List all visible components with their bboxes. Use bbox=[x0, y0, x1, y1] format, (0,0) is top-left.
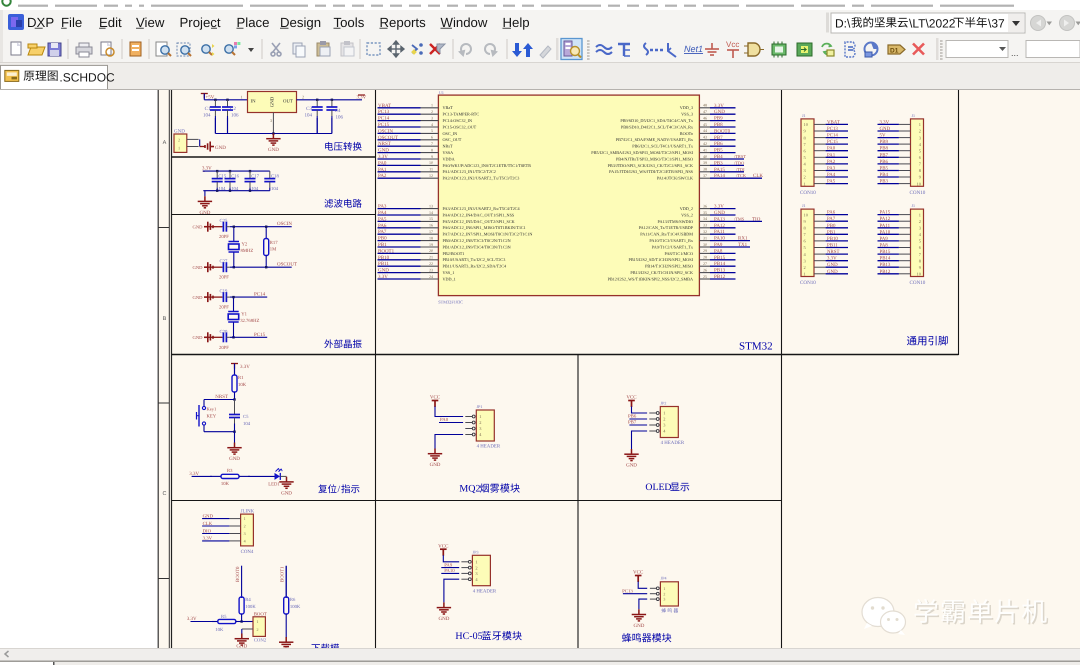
svg-text:C2: C2 bbox=[230, 106, 236, 112]
svg-text:PB12: PB12 bbox=[880, 269, 891, 275]
svg-text:42: 42 bbox=[703, 141, 707, 146]
svg-text:R3: R3 bbox=[227, 468, 233, 474]
svg-text:24: 24 bbox=[429, 274, 433, 279]
svg-text:3.3V: 3.3V bbox=[827, 256, 837, 262]
power +5V bbox=[201, 94, 215, 101]
svg-text:CON10: CON10 bbox=[910, 190, 926, 196]
svg-text:BOOTo: BOOTo bbox=[680, 131, 693, 136]
svg-text:PC14: PC14 bbox=[827, 133, 838, 139]
svg-text:GND: GND bbox=[430, 462, 441, 468]
svg-text:PC13: PC13 bbox=[378, 109, 390, 115]
power 3.3V (boot) bbox=[187, 616, 216, 622]
svg-text:PC15: PC15 bbox=[378, 122, 390, 128]
pin 23 wire bbox=[378, 272, 421, 274]
svg-text:B: B bbox=[163, 316, 167, 322]
pin 9 wire bbox=[378, 158, 421, 160]
svg-text:PA12/CAN_Tx/T1ETR/USBDP: PA12/CAN_Tx/T1ETR/USBDP bbox=[639, 225, 694, 230]
title bar (clipped at top) bbox=[0, 0, 1080, 10]
svg-text:GND: GND bbox=[827, 269, 838, 275]
svg-text:GND: GND bbox=[880, 126, 891, 132]
svg-text:40: 40 bbox=[703, 154, 707, 159]
svg-text:2: 2 bbox=[663, 417, 665, 422]
svg-text:PC14-OSC32_IN: PC14-OSC32_IN bbox=[443, 118, 473, 123]
svg-text:20PF: 20PF bbox=[219, 345, 229, 351]
svg-text:TX1: TX1 bbox=[738, 242, 748, 248]
svg-text:GND: GND bbox=[378, 268, 389, 274]
svg-text:3.3V: 3.3V bbox=[203, 536, 213, 542]
svg-text:PA9: PA9 bbox=[880, 236, 889, 242]
svg-text:VDD_3: VDD_3 bbox=[680, 105, 693, 110]
svg-text:CON4: CON4 bbox=[241, 549, 254, 555]
svg-text:PB15: PB15 bbox=[714, 255, 726, 261]
svg-text:PB12: PB12 bbox=[714, 274, 726, 280]
svg-text:STM32F103C: STM32F103C bbox=[438, 300, 463, 305]
status strip bbox=[0, 661, 1080, 665]
svg-text:25: 25 bbox=[703, 274, 707, 279]
svg-text:J1: J1 bbox=[802, 203, 806, 208]
svg-text:2: 2 bbox=[302, 94, 304, 99]
svg-text:PB6: PB6 bbox=[880, 159, 889, 165]
svg-text:GND: GND bbox=[193, 265, 204, 270]
svg-text:38: 38 bbox=[703, 167, 707, 172]
svg-text:PB6/I2C1_SCL/T4C1/USART1_Tx: PB6/I2C1_SCL/T4C1/USART1_Tx bbox=[632, 144, 694, 149]
svg-text:PB9/SD10_D5/I2C1_SDA/T4C4/CAN_: PB9/SD10_D5/I2C1_SDA/T4C4/CAN_Tx bbox=[620, 118, 693, 123]
svg-text:3: 3 bbox=[270, 118, 272, 123]
svg-text:5V: 5V bbox=[880, 133, 886, 139]
connector J1 CON10 bbox=[800, 113, 848, 196]
svg-text:C16: C16 bbox=[231, 174, 239, 180]
svg-text:PB4: PB4 bbox=[714, 154, 723, 160]
svg-text:PA3/ADC123_IN3/USART2_Rx/T5C4/: PA3/ADC123_IN3/USART2_Rx/T5C4/T2C4 bbox=[443, 206, 521, 211]
svg-text:VDD_2: VDD_2 bbox=[680, 206, 693, 211]
svg-text:OUT: OUT bbox=[283, 98, 293, 104]
svg-text:PA3: PA3 bbox=[378, 204, 387, 210]
block label 滤波电路 bbox=[324, 199, 361, 208]
ground GND (boot) bbox=[235, 629, 249, 650]
pin 45 wire bbox=[699, 126, 710, 128]
svg-text:3: 3 bbox=[663, 597, 665, 602]
svg-text:DIO: DIO bbox=[203, 528, 212, 534]
svg-text:22: 22 bbox=[429, 261, 433, 266]
svg-text:PB3/JTDO/SPI3_SCK/I2S3_CK/T2C2: PB3/JTDO/SPI3_SCK/I2S3_CK/T2C2/SPI1_SCK bbox=[608, 163, 693, 168]
svg-text:4 HEADER: 4 HEADER bbox=[661, 440, 685, 446]
svg-text:A: A bbox=[163, 140, 167, 146]
svg-text:10: 10 bbox=[429, 160, 433, 165]
svg-text:GND: GND bbox=[438, 616, 449, 622]
svg-text:36: 36 bbox=[703, 203, 707, 208]
svg-text:PB14/T1CH2N/SPI2_MISO: PB14/T1CH2N/SPI2_MISO bbox=[645, 264, 693, 269]
block label 复位/指示 bbox=[318, 484, 359, 495]
svg-text:PB7/I2C1_SDA/FSME_NADV/USART1_: PB7/I2C1_SDA/FSME_NADV/USART1_Rx bbox=[616, 137, 694, 142]
svg-text:106: 106 bbox=[231, 113, 239, 119]
svg-text:/: / bbox=[338, 485, 341, 495]
svg-text:1: 1 bbox=[178, 146, 180, 151]
connector P1 (2-pin GND) bbox=[174, 128, 205, 152]
svg-text:44: 44 bbox=[703, 128, 707, 133]
svg-text:2: 2 bbox=[919, 129, 921, 134]
op-amp U1 STM32F103C body bbox=[438, 90, 699, 305]
svg-text:C3: C3 bbox=[306, 106, 312, 112]
connector J5 JLINK CON4 bbox=[202, 509, 255, 555]
block label 电压转换 bbox=[325, 142, 362, 151]
ground GND (filter) bbox=[198, 191, 212, 216]
pin 40 wire bbox=[699, 158, 710, 160]
pin 16 wire bbox=[378, 227, 421, 229]
pin 24 wire bbox=[378, 278, 421, 280]
svg-text:Help: Help bbox=[503, 15, 530, 30]
pin 47 wire bbox=[699, 113, 710, 115]
svg-text:33: 33 bbox=[703, 223, 707, 228]
svg-text:32: 32 bbox=[703, 229, 707, 234]
svg-text:GND: GND bbox=[203, 513, 214, 519]
svg-text:PC15: PC15 bbox=[254, 332, 266, 338]
svg-text:BOOT0: BOOT0 bbox=[714, 128, 731, 134]
svg-text:41: 41 bbox=[703, 147, 707, 152]
svg-text:PA2: PA2 bbox=[378, 173, 387, 179]
svg-text:10K: 10K bbox=[215, 627, 224, 633]
pin 30 wire bbox=[699, 246, 710, 248]
power 3.3V (reset) bbox=[231, 364, 250, 376]
pin 27 wire bbox=[699, 265, 710, 267]
svg-text:Place: Place bbox=[237, 15, 270, 30]
svg-text:Y1: Y1 bbox=[241, 312, 247, 318]
svg-text:PC15-OSC32_OUT: PC15-OSC32_OUT bbox=[443, 124, 477, 129]
svg-text:J1: J1 bbox=[802, 113, 806, 118]
horizontal scrollbar bbox=[0, 648, 1080, 661]
svg-text:PA3: PA3 bbox=[827, 166, 836, 172]
menu bar bbox=[0, 10, 1080, 36]
pin 35 wire bbox=[699, 214, 710, 216]
svg-text:PA14: PA14 bbox=[714, 173, 725, 179]
svg-text:VBAT: VBAT bbox=[827, 119, 840, 125]
pin 19 wire bbox=[378, 246, 421, 248]
svg-text:PB15: PB15 bbox=[880, 249, 891, 255]
svg-text:PA5: PA5 bbox=[827, 179, 836, 185]
pin 7 wire bbox=[378, 145, 421, 147]
bottom rail (filter) bbox=[203, 190, 269, 192]
LED D1 bbox=[268, 468, 282, 487]
svg-text:PA8/T1C1/MCO: PA8/T1C1/MCO bbox=[665, 251, 693, 256]
svg-text:PB9: PB9 bbox=[714, 116, 723, 122]
svg-text:3: 3 bbox=[431, 115, 433, 120]
svg-text:PB14: PB14 bbox=[880, 256, 891, 262]
svg-text:OLED: OLED bbox=[645, 482, 671, 493]
svg-text:PA8: PA8 bbox=[714, 248, 723, 254]
svg-text:2: 2 bbox=[431, 109, 433, 114]
block label MQ2烟雾模块 bbox=[459, 483, 519, 494]
switch S1 KEY bbox=[197, 400, 235, 432]
svg-text:PB13/I2S2_CK/T1CH1N/SPI2_SCK: PB13/I2S2_CK/T1CH1N/SPI2_SCK bbox=[630, 270, 693, 275]
svg-text:PA12: PA12 bbox=[880, 216, 891, 222]
svg-text:PB11: PB11 bbox=[827, 243, 838, 249]
ground GND (boot1) bbox=[279, 637, 293, 649]
svg-text:PA15/JTDI/I2S3_WS/JTDI/T2C1ETR: PA15/JTDI/I2S3_WS/JTDI/T2C1ETR/SPI3_NSS bbox=[609, 169, 694, 174]
svg-text:R1: R1 bbox=[238, 375, 244, 381]
capacitor C16 bbox=[225, 171, 240, 192]
net NRST bbox=[204, 394, 236, 400]
svg-text:PB9: PB9 bbox=[880, 139, 889, 145]
wire VCC to pin1 (OLED) bbox=[632, 407, 648, 414]
wire pin3 to GND (buzzer) bbox=[639, 599, 647, 609]
svg-text:R6: R6 bbox=[290, 597, 296, 603]
svg-text:104: 104 bbox=[243, 421, 251, 427]
svg-text:NRsT: NRsT bbox=[443, 144, 453, 149]
pin 43 wire bbox=[699, 139, 710, 141]
pin 29 wire bbox=[699, 252, 710, 254]
svg-text:1: 1 bbox=[241, 94, 243, 99]
document tab row bbox=[0, 62, 1080, 90]
svg-text:8MHZ: 8MHZ bbox=[241, 248, 254, 254]
svg-text:PA5: PA5 bbox=[378, 216, 387, 222]
svg-text:PA0/WKUP/ADC123_IN0/T2C1ETR/T5: PA0/WKUP/ADC123_IN0/T2C1ETR/T5C1/T8ETR bbox=[443, 163, 532, 168]
svg-text:OSCOUT: OSCOUT bbox=[378, 135, 398, 141]
wire VCC to pin1 (buzzer) bbox=[638, 582, 647, 589]
svg-text:5: 5 bbox=[431, 128, 433, 133]
pin 17 wire bbox=[378, 233, 421, 235]
svg-text:PB8/SD10_D4/I2C1_SCL/T4C3/CAN_: PB8/SD10_D4/I2C1_SCL/T4C3/CAN_Rx bbox=[621, 124, 694, 129]
svg-text:GND: GND bbox=[827, 262, 838, 268]
svg-text:PC15: PC15 bbox=[827, 139, 838, 145]
svg-text:PB12/I2S2_WS/T1BKIN/SPI2_NSS/I: PB12/I2S2_WS/T1BKIN/SPI2_NSS/I2C2_SMBA bbox=[608, 276, 693, 281]
pin 13 wire bbox=[378, 208, 421, 210]
svg-text:OSC_OUT: OSC_OUT bbox=[443, 137, 462, 142]
pin 36 wire bbox=[699, 208, 710, 210]
svg-text:31: 31 bbox=[703, 235, 707, 240]
svg-text:2: 2 bbox=[178, 138, 180, 143]
wire VCC to pin1 (HC05) bbox=[443, 555, 459, 562]
svg-text:PA10: PA10 bbox=[880, 229, 891, 235]
transistor U1 pins and net labels bbox=[378, 103, 764, 282]
svg-text:PA15: PA15 bbox=[880, 210, 891, 216]
svg-text:PA11: PA11 bbox=[880, 223, 891, 229]
svg-text:U1: U1 bbox=[439, 90, 444, 95]
wire pin4 to GND (HC05) bbox=[444, 579, 459, 602]
wire VCC to pin1 bbox=[435, 407, 463, 417]
svg-text:PB1/ADC12_IN9/T3C4/T8C3N/T1C3N: PB1/ADC12_IN9/T3C4/T8C3N/T1C3N bbox=[443, 244, 511, 249]
resistor R6 100K bbox=[284, 566, 301, 638]
svg-text:45: 45 bbox=[703, 122, 707, 127]
svg-text:1: 1 bbox=[663, 586, 665, 591]
power 3.3V (LED row) bbox=[189, 471, 274, 477]
svg-text:HC-05: HC-05 bbox=[455, 631, 482, 642]
partial label 下载 (clipped) bbox=[312, 644, 340, 653]
connector J4 CON10 bbox=[878, 203, 926, 286]
svg-text:R17: R17 bbox=[270, 240, 278, 246]
svg-text:4: 4 bbox=[431, 122, 433, 127]
pin 22 wire bbox=[378, 265, 421, 267]
svg-text:21: 21 bbox=[429, 255, 433, 260]
pin 21 wire bbox=[378, 259, 421, 261]
net PC13 wire bbox=[622, 589, 647, 595]
svg-text:20PF: 20PF bbox=[219, 305, 229, 311]
svg-text:2: 2 bbox=[804, 175, 806, 180]
svg-text:...: ... bbox=[1011, 48, 1019, 58]
block label STM32 bbox=[739, 341, 773, 353]
svg-text:104: 104 bbox=[203, 113, 211, 119]
svg-text:39: 39 bbox=[703, 160, 707, 165]
svg-text:100K: 100K bbox=[245, 604, 256, 610]
ground GND (buzzer) bbox=[632, 609, 646, 629]
watermark text 学霸单片机 bbox=[915, 599, 1049, 625]
wire OUT to 3.3V bbox=[297, 94, 367, 101]
svg-text:File: File bbox=[61, 15, 82, 30]
svg-text:JP4: JP4 bbox=[661, 576, 667, 581]
svg-text:/TDO: /TDO bbox=[734, 160, 744, 165]
pin 32 wire bbox=[699, 233, 710, 235]
svg-text:PC14: PC14 bbox=[254, 292, 266, 298]
svg-text:48: 48 bbox=[703, 103, 707, 108]
svg-text:CLK: CLK bbox=[753, 173, 763, 179]
svg-text:\37: \37 bbox=[988, 17, 1005, 31]
svg-text:KEY: KEY bbox=[207, 414, 217, 420]
svg-text:100K: 100K bbox=[290, 604, 301, 610]
svg-text:PB11/USART3_Rx/I2C2_SDA/T2C4: PB11/USART3_Rx/I2C2_SDA/T2C4 bbox=[443, 264, 507, 269]
svg-text:OSCOUT: OSCOUT bbox=[277, 262, 297, 268]
svg-text:7: 7 bbox=[431, 141, 433, 146]
svg-text:Key1: Key1 bbox=[207, 407, 217, 412]
svg-text:/TCK: /TCK bbox=[736, 173, 747, 178]
svg-text:J1: J1 bbox=[912, 113, 916, 118]
svg-text:C27: C27 bbox=[220, 259, 228, 265]
net PA0 wire bbox=[439, 417, 463, 423]
ground GND (LED) bbox=[279, 476, 293, 496]
power VCC (buzzer) bbox=[633, 570, 644, 582]
pin 42 wire bbox=[699, 145, 710, 147]
svg-text:19: 19 bbox=[429, 242, 433, 247]
svg-text:PA6: PA6 bbox=[827, 210, 836, 216]
svg-text:30: 30 bbox=[703, 242, 707, 247]
svg-text:PB13: PB13 bbox=[880, 262, 891, 268]
regulator GND pin wire bbox=[272, 113, 274, 134]
ground GND (reset) bbox=[227, 432, 241, 462]
svg-text:2: 2 bbox=[919, 219, 921, 224]
pin 41 wire bbox=[699, 152, 710, 154]
resistor R1 10K bbox=[232, 368, 247, 400]
svg-text:PC13-TAMPER-RTC: PC13-TAMPER-RTC bbox=[443, 112, 480, 117]
svg-text:18: 18 bbox=[429, 235, 433, 240]
resistor R5 10K bbox=[212, 614, 242, 633]
svg-text:2: 2 bbox=[257, 627, 259, 632]
svg-text:R4: R4 bbox=[245, 597, 251, 603]
svg-text:4 HEADER: 4 HEADER bbox=[473, 588, 497, 594]
svg-text:VCC: VCC bbox=[626, 395, 637, 401]
resistor R17 1M bbox=[264, 226, 279, 269]
svg-text:10K: 10K bbox=[221, 481, 230, 487]
svg-text:PA2/ADC123_IN2/USART2_Tx/T5C3/: PA2/ADC123_IN2/USART2_Tx/T5C3/T2C3 bbox=[443, 176, 520, 181]
svg-text:1: 1 bbox=[257, 619, 259, 624]
pin 14 wire bbox=[378, 214, 421, 216]
power 3.3V (filter) bbox=[202, 165, 212, 171]
svg-text:PA6: PA6 bbox=[378, 223, 387, 229]
svg-text:PA0: PA0 bbox=[378, 160, 387, 166]
svg-text:2: 2 bbox=[475, 565, 477, 570]
svg-text:C19: C19 bbox=[220, 289, 228, 295]
svg-text:PC13: PC13 bbox=[827, 126, 838, 132]
svg-text:View: View bbox=[136, 15, 165, 30]
svg-text:PB4/NJTRsT/SPI3_MISO/T3C1/SPI1: PB4/NJTRsT/SPI3_MISO/T3C1/SPI1_MISO bbox=[616, 156, 693, 161]
svg-text:PA11/CAN_Rx/T1C4/USBDM: PA11/CAN_Rx/T1C4/USBDM bbox=[640, 232, 693, 237]
svg-text:BOOT1: BOOT1 bbox=[280, 566, 286, 582]
pin 31 wire bbox=[699, 240, 710, 242]
svg-text:PB3: PB3 bbox=[714, 160, 723, 166]
svg-text:VCC: VCC bbox=[633, 570, 644, 576]
svg-text:PB7: PB7 bbox=[714, 135, 723, 141]
capacitor C4 bbox=[326, 100, 343, 134]
connector J6 BOOT CON2 bbox=[242, 612, 267, 644]
svg-text:Window: Window bbox=[441, 15, 488, 30]
svg-text:/TRST: /TRST bbox=[734, 154, 746, 159]
capacitor C3 bbox=[305, 100, 323, 134]
svg-text:PA1/ADC123_IN1/T5C2/T2C2: PA1/ADC123_IN1/T5C2/T2C2 bbox=[443, 169, 496, 174]
svg-text:10K: 10K bbox=[238, 382, 247, 388]
svg-text:C25: C25 bbox=[220, 218, 228, 224]
svg-text:BOOT1: BOOT1 bbox=[378, 248, 395, 254]
svg-text:14: 14 bbox=[429, 210, 433, 215]
svg-text:JP1: JP1 bbox=[477, 404, 483, 409]
net PB7 wire bbox=[628, 419, 647, 425]
svg-text:VSS_1: VSS_1 bbox=[443, 270, 455, 275]
svg-text:VCC: VCC bbox=[430, 395, 441, 401]
capacitor C18 bbox=[264, 171, 279, 192]
pin 33 wire bbox=[699, 227, 710, 229]
svg-text:C4: C4 bbox=[335, 108, 341, 114]
svg-text:C17: C17 bbox=[251, 174, 259, 180]
svg-text:PA2: PA2 bbox=[827, 159, 836, 165]
svg-text:GND: GND bbox=[270, 96, 276, 107]
svg-text:PA1: PA1 bbox=[378, 167, 387, 173]
block label 蜂鸣器模块 bbox=[622, 633, 671, 642]
svg-text:PA13: PA13 bbox=[714, 216, 725, 222]
svg-text:JP3: JP3 bbox=[473, 549, 479, 554]
svg-text:Y2: Y2 bbox=[242, 242, 248, 248]
capacitor C19 + GND port, PC14 bbox=[193, 289, 268, 311]
svg-text:GND: GND bbox=[378, 148, 389, 154]
power port GND bbox=[205, 142, 226, 152]
svg-text:\LT\2022: \LT\2022 bbox=[909, 17, 956, 31]
svg-text:NRST: NRST bbox=[827, 249, 840, 255]
svg-text:PA7/ADC12_IN7/SPI1_MOSI/T8C1N/: PA7/ADC12_IN7/SPI1_MOSI/T8C1N/T3C2/T1C1N bbox=[443, 232, 533, 237]
svg-text:PA0: PA0 bbox=[827, 146, 836, 152]
svg-text:/TMS: /TMS bbox=[734, 216, 745, 221]
svg-text:GND: GND bbox=[626, 463, 637, 469]
svg-text:BOOT0: BOOT0 bbox=[235, 566, 241, 582]
svg-text:GND: GND bbox=[193, 335, 204, 340]
svg-text:PB3: PB3 bbox=[880, 179, 889, 185]
svg-text:PA9/T1C2/USART1_Tx: PA9/T1C2/USART1_Tx bbox=[652, 244, 694, 249]
pin 2 wire bbox=[378, 113, 421, 115]
svg-text:6: 6 bbox=[431, 135, 433, 140]
connector JP1 4 HEADER bbox=[465, 404, 501, 450]
svg-text:D:\: D:\ bbox=[835, 17, 851, 31]
svg-text:34: 34 bbox=[703, 216, 707, 221]
pin 37 wire bbox=[699, 177, 710, 179]
pin 3 wire bbox=[378, 120, 421, 122]
capacitor C17 bbox=[245, 171, 260, 192]
block label 外部晶振 bbox=[324, 339, 361, 348]
svg-text:16: 16 bbox=[429, 223, 433, 228]
svg-text:PA4/ADC12_IN4/DAC_OUT1/SPI1_NS: PA4/ADC12_IN4/DAC_OUT1/SPI1_NSS bbox=[443, 212, 515, 217]
svg-text:PB14: PB14 bbox=[714, 261, 726, 267]
svg-text:VBAT: VBAT bbox=[378, 103, 391, 109]
svg-text:106: 106 bbox=[336, 115, 344, 121]
svg-text:1: 1 bbox=[804, 181, 806, 186]
pin 18 wire bbox=[378, 240, 421, 242]
svg-text:C20: C20 bbox=[220, 329, 228, 335]
pin 1 wire bbox=[378, 107, 421, 109]
top rail bbox=[203, 170, 270, 172]
capacitor C2 bbox=[222, 100, 239, 134]
svg-text:VSS_3: VSS_3 bbox=[681, 112, 693, 117]
